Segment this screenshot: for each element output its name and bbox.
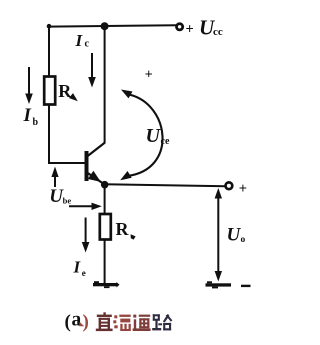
- svg-text:c: c: [85, 39, 90, 50]
- svg-text:e: e: [82, 268, 86, 278]
- svg-text:+: +: [239, 181, 247, 197]
- svg-text:): ): [83, 312, 89, 333]
- wire emitter upper: [104, 185, 106, 215]
- svg-text:R: R: [116, 219, 130, 239]
- transistor Q1 collector diagonal: [87, 143, 105, 157]
- wire collector vertical: [104, 26, 106, 143]
- minus sign: [241, 285, 251, 287]
- transistor Q1 base bar: [85, 151, 89, 181]
- svg-text:a: a: [72, 310, 82, 331]
- arrow Uce arc: [127, 95, 163, 177]
- wire left vertical upper: [48, 25, 50, 77]
- svg-text:+: +: [145, 68, 153, 83]
- arrow Ic: [91, 53, 93, 79]
- svg-text:I: I: [23, 105, 32, 126]
- arrow Uo double-headed: [217, 196, 219, 272]
- svg-text:U: U: [146, 125, 162, 147]
- wire top horizontal: [49, 25, 177, 26]
- ground right: [206, 283, 232, 286]
- svg-text:be: be: [63, 196, 72, 206]
- node top junction: [101, 22, 109, 30]
- svg-text:(: (: [65, 312, 71, 333]
- wire emitter lower: [104, 239, 106, 284]
- svg-text:cc: cc: [213, 26, 223, 38]
- caption char 流: [113, 315, 131, 331]
- terminal +Ucc: [177, 24, 183, 30]
- arrow Ube up: [54, 175, 56, 187]
- node emitter junction: [101, 181, 109, 189]
- transistor Q1 emitter arrowhead: [88, 171, 101, 182]
- resistor Re: [100, 214, 111, 240]
- terminal output: [226, 182, 233, 189]
- caption char 通: [133, 315, 151, 331]
- ground left: [93, 283, 117, 286]
- node top-left corner: [47, 24, 52, 29]
- wire left vertical lower: [48, 104, 50, 164]
- wire output horizontal: [105, 184, 226, 186]
- svg-text:ce: ce: [161, 136, 170, 147]
- caption char 路: [152, 314, 172, 331]
- svg-text:b: b: [33, 117, 39, 128]
- svg-text:I: I: [73, 257, 82, 276]
- resistor Rb: [44, 77, 55, 105]
- svg-text:U: U: [227, 225, 242, 246]
- arrow Ib: [28, 67, 30, 96]
- svg-text:+: +: [186, 22, 194, 38]
- wire base horizontal: [48, 162, 85, 164]
- arrow Ie: [85, 218, 87, 245]
- caption char 直: [96, 312, 113, 331]
- svg-text:I: I: [75, 31, 84, 50]
- svg-text:o: o: [241, 235, 246, 245]
- arrow Ube right: [69, 205, 93, 207]
- transistor Q1 emitter diagonal: [87, 173, 105, 185]
